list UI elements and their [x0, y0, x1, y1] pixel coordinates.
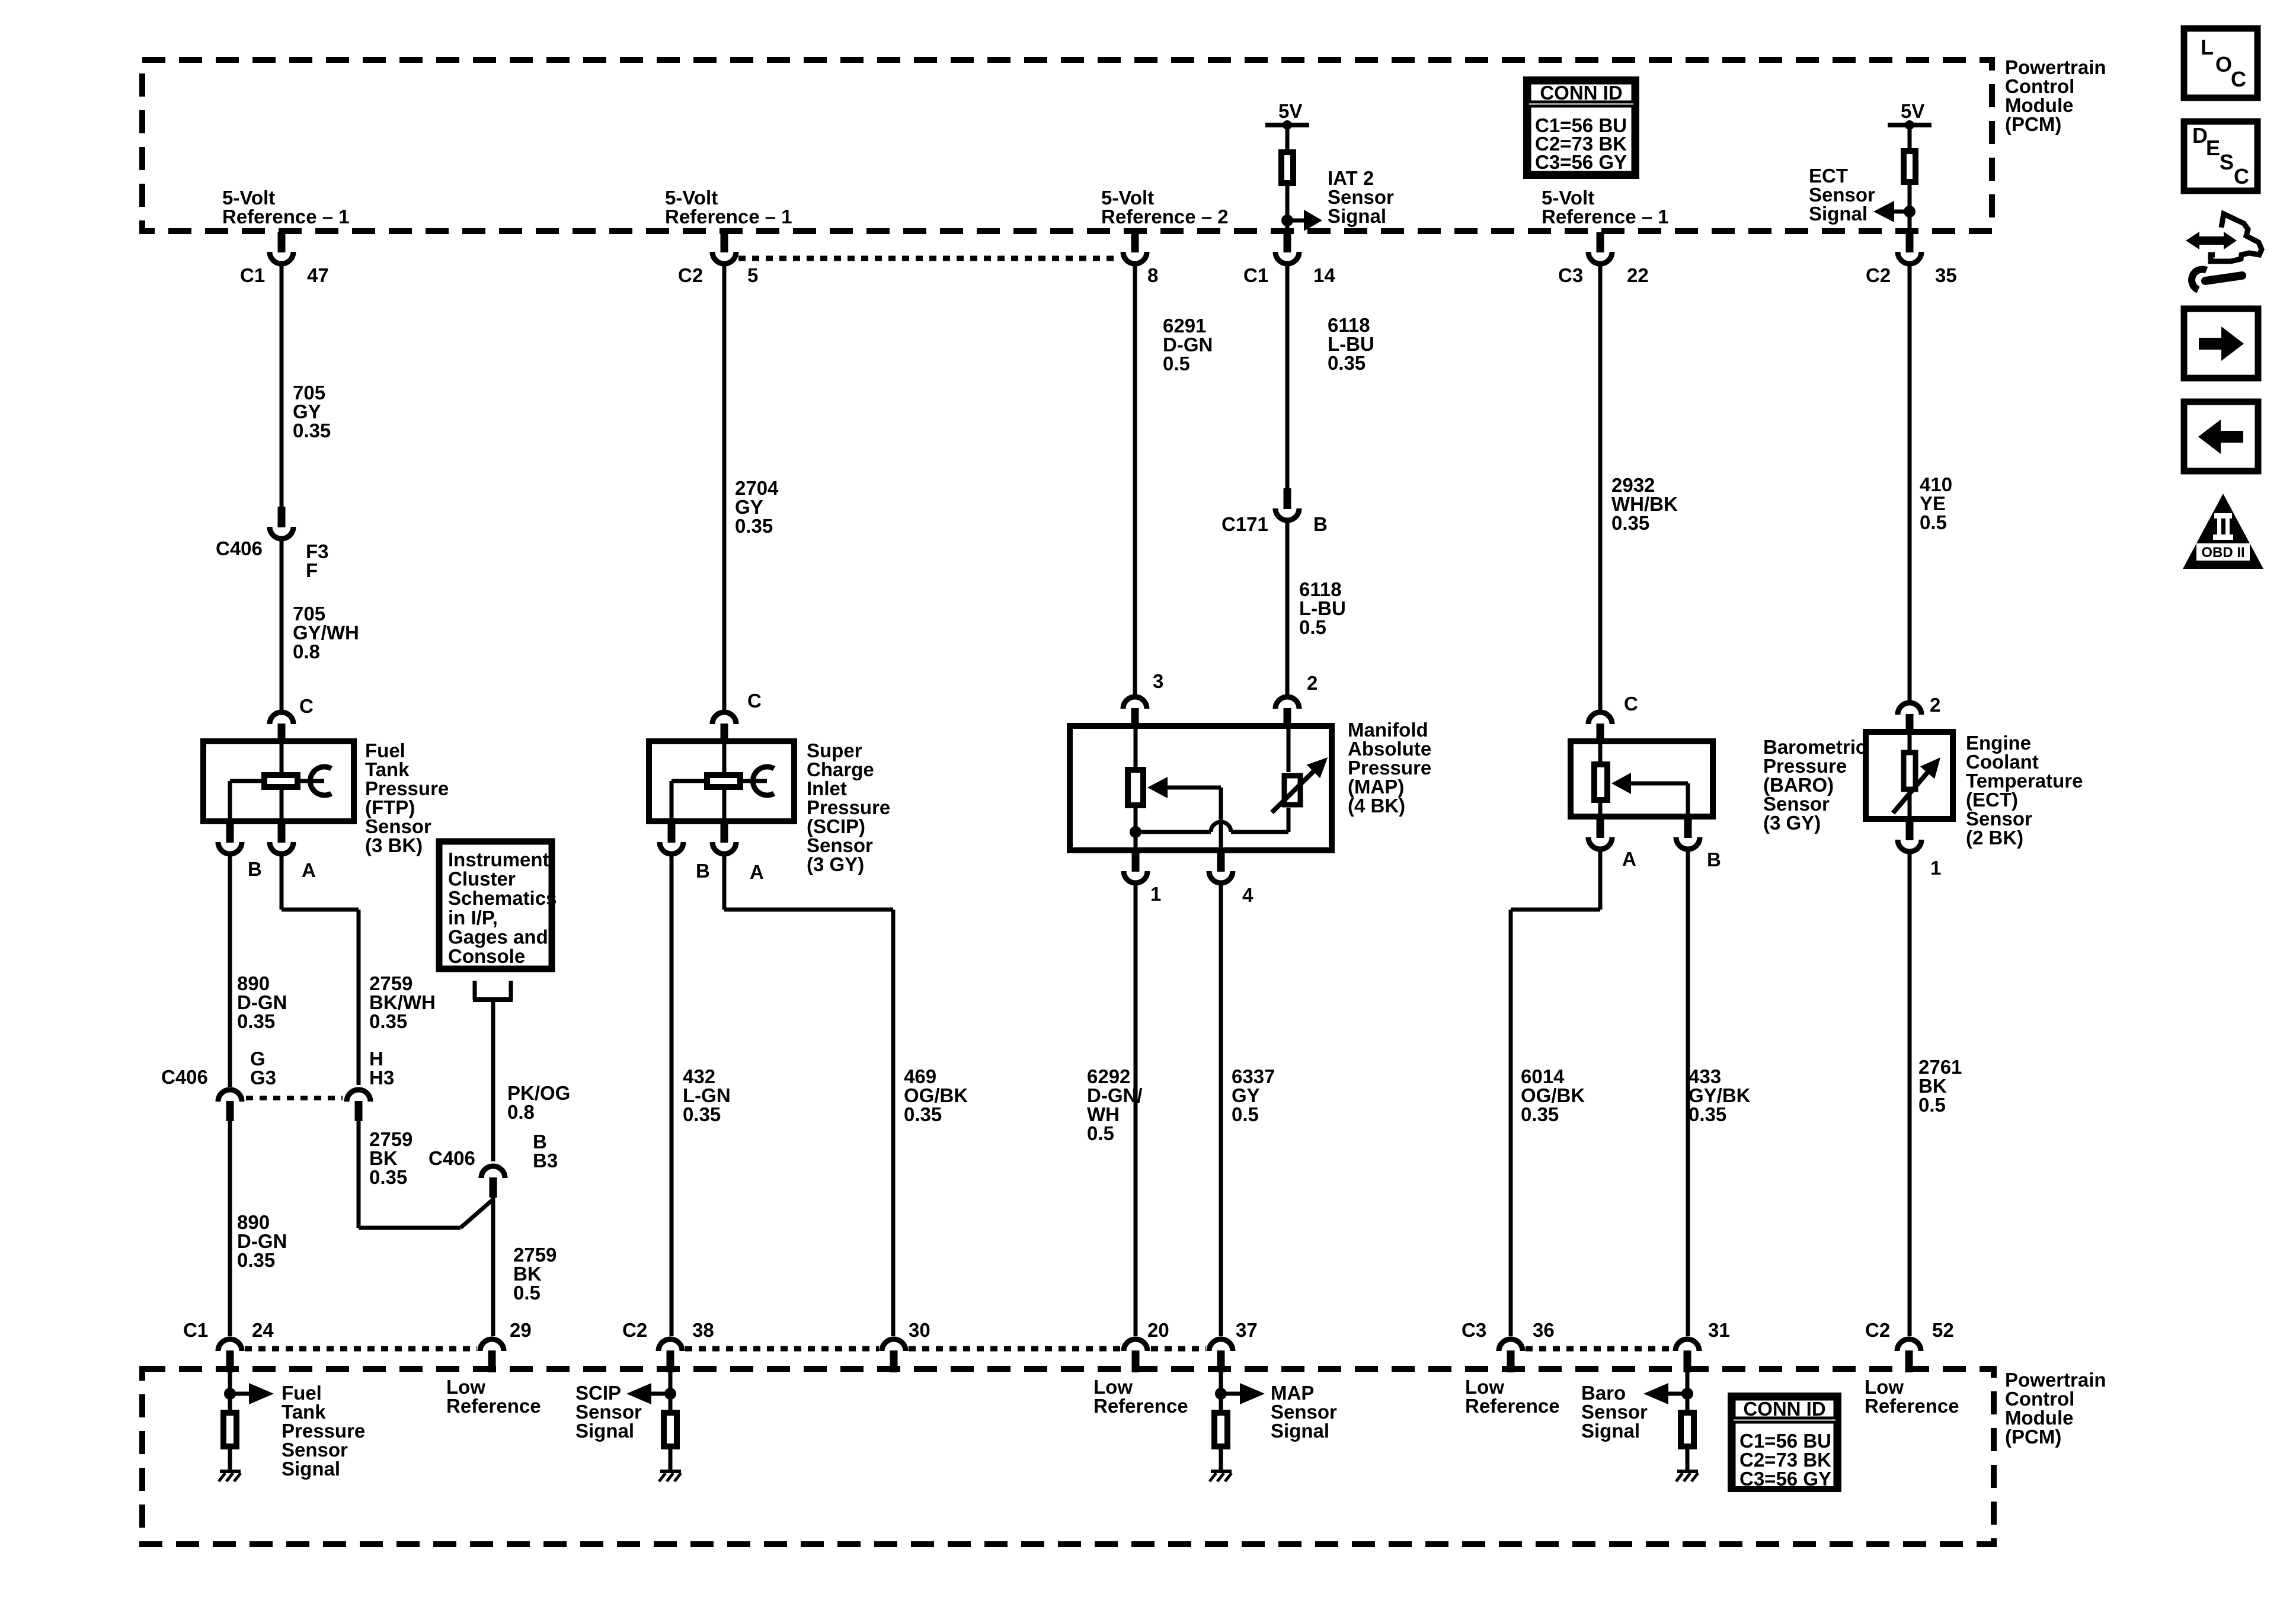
svg-text:C2: C2 — [1866, 264, 1891, 286]
svg-text:1: 1 — [1150, 883, 1161, 905]
svg-text:2: 2 — [1307, 672, 1318, 694]
svg-text:O: O — [2215, 52, 2232, 76]
svg-text:Signal: Signal — [1581, 1420, 1640, 1442]
svg-text:0.8: 0.8 — [293, 641, 320, 662]
svg-text:0.5: 0.5 — [1232, 1103, 1259, 1125]
svg-text:5V: 5V — [1901, 100, 1924, 122]
svg-text:0.35: 0.35 — [293, 420, 331, 441]
svg-text:Reference – 2: Reference – 2 — [1101, 206, 1229, 228]
svg-text:29: 29 — [510, 1319, 532, 1341]
svg-text:E: E — [2206, 136, 2220, 160]
svg-text:14: 14 — [1313, 264, 1335, 286]
svg-text:C1: C1 — [1243, 264, 1268, 286]
svg-text:B: B — [1707, 849, 1721, 870]
svg-text:C: C — [2231, 67, 2246, 91]
svg-text:C1: C1 — [240, 264, 265, 286]
svg-text:0.35: 0.35 — [904, 1103, 942, 1125]
svg-text:Signal: Signal — [1809, 203, 1868, 225]
svg-text:Reference – 1: Reference – 1 — [222, 206, 350, 228]
svg-text:38: 38 — [692, 1319, 714, 1341]
svg-text:B: B — [696, 860, 710, 882]
svg-text:0.35: 0.35 — [1521, 1103, 1559, 1125]
svg-text:Signal: Signal — [1328, 205, 1386, 227]
svg-text:Schematics: Schematics — [448, 887, 557, 909]
svg-text:(4 BK): (4 BK) — [1348, 795, 1405, 817]
svg-text:24: 24 — [252, 1319, 274, 1341]
svg-text:C2: C2 — [1865, 1319, 1890, 1341]
svg-text:(2 BK): (2 BK) — [1966, 827, 2023, 849]
svg-text:0.35: 0.35 — [369, 1166, 407, 1188]
svg-text:Signal: Signal — [575, 1420, 634, 1442]
svg-text:A: A — [302, 859, 316, 881]
svg-text:8: 8 — [1147, 264, 1158, 286]
svg-text:C: C — [747, 690, 762, 712]
svg-text:Cluster: Cluster — [448, 868, 516, 890]
svg-text:Signal: Signal — [1271, 1420, 1329, 1442]
svg-text:A: A — [1622, 848, 1636, 870]
svg-text:Instrument: Instrument — [448, 849, 549, 870]
svg-text:0.5: 0.5 — [1299, 616, 1326, 638]
svg-text:C3: C3 — [1558, 264, 1583, 286]
svg-text:0.8: 0.8 — [507, 1101, 535, 1123]
svg-text:Reference: Reference — [1093, 1395, 1188, 1417]
svg-text:C406: C406 — [161, 1066, 208, 1088]
svg-text:(3 GY): (3 GY) — [807, 853, 864, 875]
svg-text:30: 30 — [909, 1319, 930, 1341]
svg-text:4: 4 — [1242, 884, 1253, 906]
svg-text:0.5: 0.5 — [1163, 353, 1190, 375]
svg-text:3: 3 — [1153, 670, 1163, 692]
svg-text:B: B — [1313, 513, 1328, 535]
svg-text:0.35: 0.35 — [1689, 1103, 1726, 1125]
svg-text:0.5: 0.5 — [1087, 1122, 1114, 1144]
svg-text:CONN ID: CONN ID — [1540, 82, 1622, 104]
svg-text:(PCM): (PCM) — [2005, 1426, 2061, 1448]
svg-text:0.35: 0.35 — [1328, 352, 1366, 374]
svg-text:C: C — [1624, 693, 1638, 715]
svg-text:0.35: 0.35 — [683, 1103, 721, 1125]
svg-text:(3 BK): (3 BK) — [365, 834, 423, 856]
svg-text:C2: C2 — [678, 264, 703, 286]
svg-text:0.35: 0.35 — [1611, 512, 1649, 534]
svg-text:Reference – 1: Reference – 1 — [665, 206, 792, 228]
svg-text:52: 52 — [1932, 1319, 1954, 1341]
svg-text:S: S — [2220, 150, 2234, 174]
svg-text:0.35: 0.35 — [237, 1249, 275, 1271]
svg-text:B3: B3 — [533, 1150, 558, 1172]
svg-text:2: 2 — [1930, 694, 1940, 716]
svg-text:Signal: Signal — [282, 1458, 340, 1480]
svg-text:H3: H3 — [369, 1067, 394, 1089]
svg-text:Gages and: Gages and — [448, 926, 548, 948]
svg-text:Reference: Reference — [446, 1395, 541, 1417]
svg-text:0.35: 0.35 — [735, 515, 773, 537]
svg-text:A: A — [750, 861, 764, 883]
svg-text:C2: C2 — [622, 1319, 647, 1341]
svg-text:C3=56 GY: C3=56 GY — [1739, 1468, 1831, 1490]
svg-text:C1: C1 — [183, 1319, 208, 1341]
svg-text:C3: C3 — [1462, 1319, 1486, 1341]
svg-text:Reference: Reference — [1865, 1395, 1959, 1417]
svg-text:22: 22 — [1627, 264, 1649, 286]
svg-text:G3: G3 — [250, 1067, 276, 1089]
svg-text:5: 5 — [747, 264, 758, 286]
svg-text:C406: C406 — [216, 537, 263, 559]
svg-text:(PCM): (PCM) — [2005, 113, 2061, 135]
svg-text:0.5: 0.5 — [513, 1282, 541, 1304]
svg-text:1: 1 — [1930, 857, 1941, 879]
svg-text:Console: Console — [448, 945, 525, 967]
svg-text:20: 20 — [1147, 1319, 1169, 1341]
svg-text:31: 31 — [1708, 1319, 1730, 1341]
svg-text:B: B — [248, 858, 262, 880]
svg-text:OBD II: OBD II — [2201, 545, 2244, 561]
svg-text:C406: C406 — [428, 1147, 475, 1169]
svg-text:C171: C171 — [1221, 513, 1268, 535]
svg-text:Reference: Reference — [1465, 1395, 1560, 1417]
svg-text:C3=56 GY: C3=56 GY — [1535, 151, 1627, 173]
svg-text:47: 47 — [307, 264, 329, 286]
svg-text:C: C — [2234, 164, 2249, 188]
svg-text:F: F — [306, 559, 318, 581]
svg-text:CONN ID: CONN ID — [1743, 1398, 1825, 1420]
svg-text:C: C — [299, 695, 314, 717]
svg-text:37: 37 — [1236, 1319, 1258, 1341]
svg-text:0.5: 0.5 — [1920, 511, 1947, 533]
svg-text:Reference – 1: Reference – 1 — [1542, 206, 1669, 228]
svg-text:0.35: 0.35 — [237, 1010, 275, 1032]
svg-text:in I/P,: in I/P, — [448, 907, 498, 929]
svg-text:5V: 5V — [1278, 100, 1302, 122]
svg-text:L: L — [2201, 35, 2214, 59]
svg-text:(3 GY): (3 GY) — [1763, 812, 1821, 834]
svg-text:0.5: 0.5 — [1918, 1094, 1946, 1116]
svg-text:36: 36 — [1533, 1319, 1555, 1341]
svg-text:35: 35 — [1935, 264, 1957, 286]
svg-text:0.35: 0.35 — [369, 1010, 407, 1032]
